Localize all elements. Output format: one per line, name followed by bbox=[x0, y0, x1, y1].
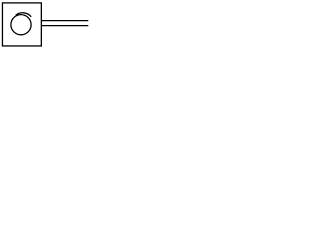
circle bbox=[11, 15, 31, 35]
top arc bbox=[16, 13, 32, 17]
lower wire bbox=[41, 25, 88, 27]
upper wire bbox=[41, 20, 88, 22]
enclosure box bbox=[2, 3, 41, 46]
